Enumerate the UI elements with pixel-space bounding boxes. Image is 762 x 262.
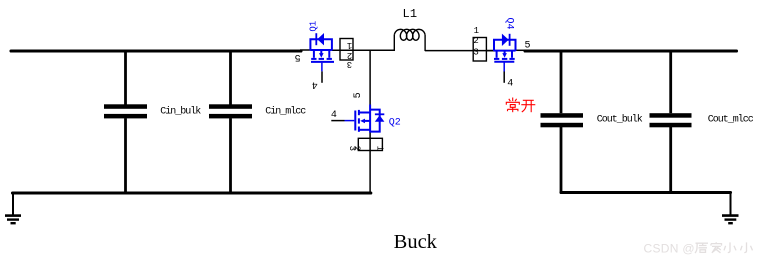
capacitor Cin_bulk <box>104 104 201 118</box>
wire top-right output rail (thick) <box>525 49 737 52</box>
wire Q4 box to mosfet <box>486 50 494 52</box>
svg-text:4: 4 <box>331 110 337 121</box>
svg-text:Q1: Q1 <box>308 21 318 32</box>
wire inductor to Q4 <box>425 50 494 52</box>
wire Cin_mlcc top lead <box>229 51 232 105</box>
wire Cout_mlcc top lead <box>669 51 672 113</box>
wire Q1 pin5 to rail <box>300 49 311 51</box>
capacitor Cout_bulk <box>541 113 643 127</box>
svg-text:3: 3 <box>473 47 478 57</box>
svg-text:1: 1 <box>347 40 352 50</box>
svg-text:L1: L1 <box>403 7 418 21</box>
wire bottom-left ground rail <box>13 191 371 194</box>
svg-text:Cout_mlcc: Cout_mlcc <box>708 114 754 126</box>
svg-text:Buck: Buck <box>394 231 438 253</box>
svg-text:2: 2 <box>351 146 361 151</box>
svg-text:CSDN @: CSDN @ <box>644 241 695 255</box>
ground left <box>5 193 21 223</box>
svg-text:5: 5 <box>524 40 530 51</box>
wire Cin_bulk top lead <box>124 51 127 105</box>
svg-text:Q4: Q4 <box>504 17 515 29</box>
ground right <box>722 193 739 224</box>
wire top-left input rail <box>11 49 301 52</box>
wire Cout_bulk top lead <box>560 51 563 113</box>
package box Q4 pins 1 2 3 <box>473 26 486 61</box>
package box Q1 pins 1 2 3 <box>340 39 353 70</box>
svg-text:1: 1 <box>474 26 479 36</box>
capacitor Cout_mlcc <box>650 113 754 127</box>
svg-text:5: 5 <box>295 51 301 62</box>
wire Q2 source to ground rail <box>369 133 371 194</box>
wire bottom-right ground rail <box>561 191 731 194</box>
svg-text:Cin_bulk: Cin_bulk <box>160 105 201 117</box>
wire Cout_bulk bottom lead <box>560 127 563 193</box>
inductor L1 <box>394 29 425 51</box>
wire Q2 gate lead <box>331 120 344 122</box>
wire Cout_mlcc bottom lead <box>669 127 672 193</box>
transistor Q1 <box>308 21 334 72</box>
wire Q1 drain to inductor (switch node) <box>332 49 395 51</box>
svg-text:2: 2 <box>347 50 352 60</box>
svg-text:Cin_mlcc: Cin_mlcc <box>265 105 306 117</box>
label 常开 (normally on), red <box>506 98 535 113</box>
package box Q2 pins 1 2 3 <box>347 138 385 151</box>
wire Q4 pin5 to rail <box>516 49 526 51</box>
wire Cin_mlcc bottom lead <box>229 118 232 193</box>
transistor Q4 <box>494 17 516 71</box>
wire Cin_bulk bottom lead <box>124 118 127 193</box>
svg-text:Cout_bulk: Cout_bulk <box>597 114 643 126</box>
svg-text:Q2: Q2 <box>389 117 401 128</box>
transistor Q2 <box>345 105 401 133</box>
capacitor Cin_mlcc <box>209 104 306 118</box>
svg-text:4: 4 <box>507 78 513 89</box>
wire Q4 gate lead <box>503 71 505 83</box>
svg-text:1: 1 <box>375 146 385 151</box>
wire Q1 gate lead <box>321 71 323 83</box>
svg-text:5: 5 <box>353 92 364 98</box>
svg-text:4: 4 <box>312 79 318 90</box>
svg-text:3: 3 <box>347 59 352 69</box>
wire switch node down to Q2 drain <box>369 50 371 104</box>
svg-text:2: 2 <box>473 36 478 46</box>
